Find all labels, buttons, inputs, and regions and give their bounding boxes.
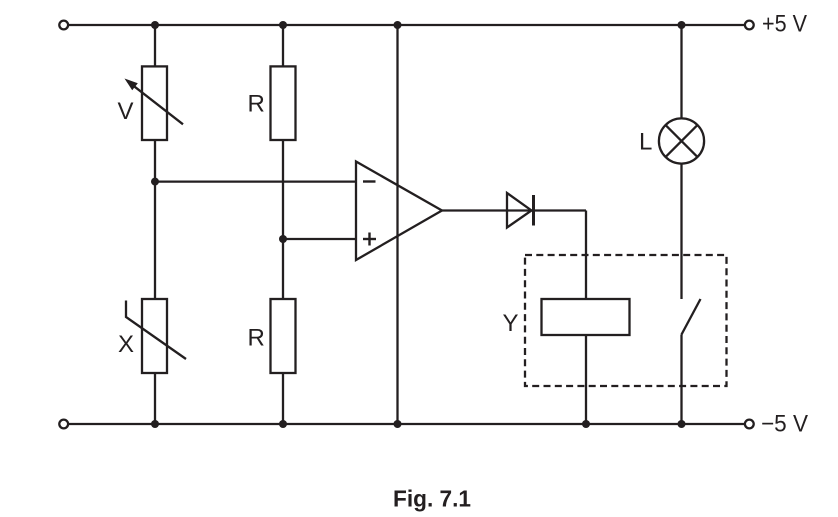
resistor R upper body <box>271 66 296 140</box>
node junction bottom rail at switch branch <box>678 420 686 428</box>
node junction top rail at lamp branch <box>678 21 686 29</box>
terminal top-right open circle +5V <box>745 21 754 30</box>
svg-text:X: X <box>118 331 134 358</box>
wire V bottom to X top <box>154 140 156 299</box>
op-amp supply wire vertical <box>396 25 398 424</box>
wire top rail to lamp <box>680 25 682 118</box>
node junction top rail at op-amp supply <box>394 21 402 29</box>
node junction bottom rail at X branch <box>151 420 159 428</box>
terminal bottom-right open circle -5V <box>745 420 754 429</box>
lamp cross <box>666 125 698 157</box>
diode cathode bar <box>532 195 535 226</box>
node junction at non-inverting input tap <box>279 235 287 243</box>
diode triangle <box>507 193 532 228</box>
wire top rail to resistor R (upper) <box>282 25 284 66</box>
arrow of variable resistor V <box>129 82 183 124</box>
op-amp minus sign <box>363 180 376 182</box>
wire op-amp output through diode <box>442 209 586 211</box>
node junction bottom rail at coil branch <box>582 420 590 428</box>
svg-text:V: V <box>118 98 134 125</box>
resistor R lower body <box>271 299 296 373</box>
wire to op-amp non-inverting input <box>283 238 356 240</box>
wire between upper R and lower R <box>282 140 284 299</box>
wire lamp to switch contact <box>680 164 682 299</box>
node junction top rail at R branch <box>279 21 287 29</box>
svg-text:R: R <box>248 91 265 118</box>
wire X bottom to bottom rail <box>154 373 156 424</box>
node junction bottom rail at R branch <box>279 420 287 428</box>
lamp L circle <box>659 118 704 163</box>
node junction at inverting input tap <box>151 178 159 186</box>
op-amp triangle <box>356 162 442 261</box>
node junction bottom rail at op-amp supply <box>394 420 402 428</box>
switch blade <box>682 299 701 335</box>
wire diode output down to relay coil <box>585 211 587 300</box>
wire lower R to bottom rail <box>282 373 284 424</box>
svg-text:L: L <box>639 129 652 156</box>
svg-text:Y: Y <box>503 310 519 337</box>
svg-text:+5 V: +5 V <box>762 11 807 38</box>
resistor V body (variable) <box>142 66 167 140</box>
svg-text:R: R <box>248 325 265 352</box>
op-amp plus sign <box>363 238 376 240</box>
wire top +5V rail <box>68 24 745 26</box>
relay dashed boundary box <box>525 255 727 386</box>
relay coil Y body <box>542 299 630 335</box>
thermistor X body <box>142 299 167 373</box>
wire switch to bottom rail <box>680 335 682 425</box>
wire to op-amp inverting input <box>155 180 356 182</box>
svg-text:−5 V: −5 V <box>761 411 808 438</box>
node junction top rail at V branch <box>151 21 159 29</box>
terminal top-left open circle <box>59 21 68 30</box>
terminal bottom-left open circle <box>59 420 68 429</box>
wire bottom -5V rail <box>68 423 745 425</box>
wire top rail to variable resistor V <box>154 25 156 66</box>
svg-text:Fig. 7.1: Fig. 7.1 <box>393 486 471 512</box>
wire relay coil to bottom rail <box>585 335 587 424</box>
thermistor X diagonal mark <box>126 301 186 360</box>
